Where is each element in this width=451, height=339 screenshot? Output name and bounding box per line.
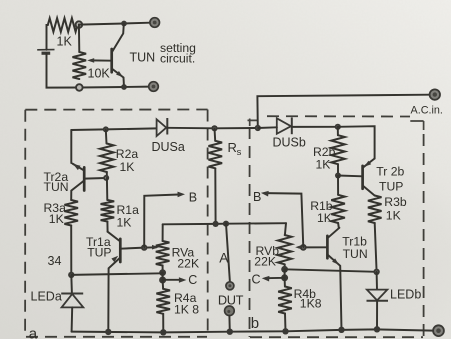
svg-text:A.C.in.: A.C.in. xyxy=(411,105,443,117)
wire DUSa to Rs node xyxy=(167,127,257,130)
terminal DUT top xyxy=(226,282,234,290)
resistor R1b xyxy=(331,176,345,228)
potentiometer 10K xyxy=(73,52,87,79)
node: C tap (a) xyxy=(159,277,166,284)
node: base / B junction (b) xyxy=(300,244,307,251)
node: rail R4a xyxy=(160,329,166,335)
terminal DUT bottom xyxy=(225,306,235,316)
svg-text:s: s xyxy=(237,147,242,158)
node: Rs top xyxy=(211,125,217,131)
svg-text:B: B xyxy=(189,190,197,204)
terminal A.C. in xyxy=(430,89,440,99)
svg-text:1K8: 1K8 xyxy=(300,297,322,311)
svg-text:TUP: TUP xyxy=(379,180,403,194)
svg-text:LEDb: LEDb xyxy=(390,287,421,301)
node: emitter bottom junction xyxy=(121,84,127,90)
svg-text:b: b xyxy=(251,315,259,332)
diode DUSb xyxy=(277,117,292,134)
wire bottom rail xyxy=(72,329,434,332)
dashed box b (right) xyxy=(248,116,424,337)
wire Tr1a base to RVa wiper xyxy=(120,247,156,248)
svg-text:1K 8: 1K 8 xyxy=(174,303,199,317)
terminal bottom right xyxy=(433,325,444,336)
svg-text:TUN: TUN xyxy=(343,247,368,261)
svg-text:LEDa: LEDa xyxy=(31,290,62,304)
node: rail R4b xyxy=(282,328,288,334)
node: LEDb top xyxy=(373,269,379,275)
node: Tr2a base / R1a top xyxy=(103,175,109,181)
svg-text:R2a: R2a xyxy=(116,147,139,161)
node: Tr2b base / R1b top xyxy=(335,173,341,179)
node: LEDa junction xyxy=(68,272,74,278)
svg-text:DUSa: DUSa xyxy=(152,140,185,154)
svg-text:1K: 1K xyxy=(316,157,331,171)
terminal (setting top) xyxy=(150,18,160,28)
wire LEDa node to RVa bottom xyxy=(71,273,162,275)
wire battery to 1K resistor xyxy=(47,25,48,50)
wire mid rail RVa to RVb xyxy=(163,223,286,224)
wire Tr1b base to RVb wiper xyxy=(298,246,327,248)
transistor Tr2a xyxy=(71,164,84,200)
wire to node C (b) xyxy=(266,269,285,278)
svg-text:34: 34 xyxy=(48,254,62,268)
node: rail Tr1a emitter xyxy=(105,329,111,335)
svg-text:a: a xyxy=(29,326,38,339)
svg-text:22K: 22K xyxy=(254,254,276,268)
node: rail Tr1b emitter xyxy=(338,327,344,333)
potentiometer RVb xyxy=(278,223,292,269)
svg-text:C: C xyxy=(188,273,197,287)
svg-text:circuit.: circuit. xyxy=(160,52,195,66)
terminal (setting bottom) xyxy=(149,82,159,92)
node: pot bottom xyxy=(76,84,83,91)
node: collector junction top xyxy=(121,21,127,27)
resistor Rs xyxy=(209,128,223,224)
node: AC junction xyxy=(255,125,261,131)
svg-text:1K: 1K xyxy=(317,211,332,225)
node: RVa bottom / LEDa wire xyxy=(159,269,166,276)
node: RVb bottom / LEDb wire xyxy=(281,266,288,273)
diode DUSa xyxy=(157,118,168,136)
wire Tr2b base xyxy=(338,175,363,178)
svg-text:22K: 22K xyxy=(177,256,199,270)
resistor R4b xyxy=(278,278,292,332)
resistor R3a xyxy=(64,200,78,226)
transistor TUN (setting) xyxy=(112,24,124,87)
svg-text:1K: 1K xyxy=(120,160,135,174)
svg-text:TUN: TUN xyxy=(44,180,69,194)
LED LEDa xyxy=(61,275,83,332)
svg-text:Tr 2b: Tr 2b xyxy=(376,164,404,178)
wire A.C. in xyxy=(257,95,429,128)
svg-text:TUP: TUP xyxy=(87,246,111,260)
wire top rail box a xyxy=(71,128,156,130)
battery BT1 xyxy=(37,50,54,54)
wire node down to potentiometer xyxy=(78,25,80,52)
wire to node B (b) xyxy=(267,193,304,247)
wire to node C (a) xyxy=(163,273,181,280)
transistor Tr1a xyxy=(108,232,121,332)
wire node to top terminal xyxy=(79,23,150,25)
resistor R2b xyxy=(331,127,345,176)
svg-text:10K: 10K xyxy=(88,67,111,81)
resistor R1a xyxy=(101,178,115,232)
node: base / B junction (a) xyxy=(141,244,147,250)
wire RVb bottom to LEDb node xyxy=(285,269,377,272)
resistor R3b xyxy=(368,196,382,272)
wire R2b node to Tr2b emitter xyxy=(338,126,375,158)
svg-text:1K: 1K xyxy=(57,35,73,49)
svg-text:1K: 1K xyxy=(386,208,401,222)
wire battery bottom rail xyxy=(47,53,150,87)
wire DUT bottom to rail xyxy=(228,316,230,332)
svg-text:B: B xyxy=(253,190,261,204)
wire to node B (a) xyxy=(144,195,179,248)
node: 1K / pot top junction xyxy=(76,21,83,28)
wire Tr2a base xyxy=(84,177,106,180)
node: DUT tap xyxy=(223,221,229,227)
resistor 1K (setting) xyxy=(48,18,78,32)
node: Rs bottom xyxy=(213,221,219,227)
svg-text:DUSb: DUSb xyxy=(273,135,306,149)
svg-text:R3b: R3b xyxy=(384,195,407,209)
node: R2a top xyxy=(103,126,109,132)
svg-text:C: C xyxy=(252,273,261,287)
wire DUT node down xyxy=(226,224,230,282)
svg-text:1K: 1K xyxy=(117,215,132,229)
wire R3a to LED node xyxy=(70,226,72,275)
node: R2b top xyxy=(335,124,341,130)
svg-text:TUN: TUN xyxy=(130,51,156,65)
transistor Tr2b xyxy=(363,159,375,196)
wire DUSb to R2b node xyxy=(258,127,338,128)
node: C tap (b) xyxy=(281,274,288,281)
wire top rail to Tr2a emitter xyxy=(70,130,72,163)
resistor R4a xyxy=(156,280,170,333)
node: rail LEDb xyxy=(374,326,380,332)
svg-text:1K: 1K xyxy=(49,212,64,226)
resistor R2a xyxy=(100,129,114,177)
svg-text:R: R xyxy=(228,140,237,155)
node: rail DUT xyxy=(227,329,233,335)
pot wiper arrow from TUN base xyxy=(91,59,112,61)
transistor Tr1b xyxy=(327,228,341,330)
potentiometer RVa xyxy=(156,224,170,273)
LED LEDb xyxy=(367,272,389,330)
dashed box a (left) xyxy=(25,110,208,337)
